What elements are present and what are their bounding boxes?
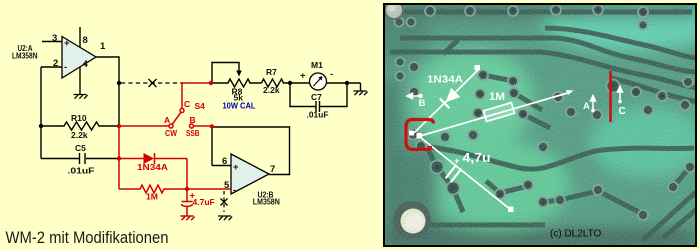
big drill hole <box>393 201 431 239</box>
svg-text:R10: R10 <box>71 113 87 123</box>
op-amp U1 (U2:A) body <box>62 37 96 79</box>
svg-text:(c) DL2LTO: (c) DL2LTO <box>550 229 602 240</box>
wire U2:B feedback loop <box>212 127 290 175</box>
annotation diode line <box>414 69 479 133</box>
svg-text:1N34A: 1N34A <box>137 162 168 172</box>
svg-text:2: 2 <box>53 58 58 69</box>
X removed mark <box>149 79 157 87</box>
wire dashed pin5 ground <box>223 191 225 212</box>
svg-text:C7: C7 <box>311 92 322 102</box>
op-amp U2 (U2:B) body <box>231 154 269 194</box>
node output junction <box>117 81 121 85</box>
annotation 1M arrowhead <box>566 90 574 95</box>
wire left feedback vertical <box>40 67 42 159</box>
wire U2:A output <box>96 57 119 126</box>
svg-text:4: 4 <box>83 59 89 70</box>
resistor R 1M <box>119 185 231 193</box>
svg-text:C5: C5 <box>75 143 86 153</box>
svg-text:C: C <box>184 99 190 109</box>
svg-text:7: 7 <box>270 164 275 175</box>
node R10 left junction <box>39 124 43 128</box>
svg-text:1M: 1M <box>146 192 158 202</box>
photo frame <box>384 4 696 246</box>
annotation red wire mark <box>609 71 612 122</box>
switch S4 contact C <box>180 109 184 113</box>
svg-text:M1: M1 <box>311 60 323 70</box>
meter M1 <box>310 73 327 90</box>
pcb pads <box>395 5 696 220</box>
photo grain <box>385 5 695 246</box>
wire node to switch A <box>119 125 169 127</box>
wire gnd drop <box>360 83 362 91</box>
wire B to U2:B loop <box>194 125 213 127</box>
svg-text:+: + <box>454 156 460 167</box>
wire pin4 power <box>79 68 81 95</box>
PCB photo <box>366 0 700 250</box>
svg-text:+: + <box>300 71 306 82</box>
svg-text:2.2k: 2.2k <box>263 85 280 95</box>
wire to meter <box>290 82 310 84</box>
svg-text:+: + <box>64 38 70 49</box>
ground near meter <box>354 91 368 95</box>
wire pin8 power <box>79 27 81 48</box>
X removed mark 2 <box>221 199 228 206</box>
svg-text:-: - <box>330 69 333 80</box>
svg-text:10W CAL: 10W CAL <box>223 102 256 111</box>
wire dashed removed link <box>121 82 182 84</box>
wire meter right <box>327 82 361 84</box>
svg-text:1M: 1M <box>489 91 505 103</box>
wire red vertical <box>118 126 120 189</box>
screw hole top-left <box>385 1 403 19</box>
wire R8 wiper box <box>212 63 239 84</box>
svg-text:C: C <box>619 106 626 117</box>
svg-text:-: - <box>233 185 236 196</box>
wire diode to cap <box>186 159 188 190</box>
wire pin2 input <box>41 66 62 68</box>
annotation end square 1 <box>475 65 481 71</box>
node red junctions <box>117 81 214 191</box>
svg-text:4,7u: 4,7u <box>463 151 491 165</box>
svg-text:WM-2 mit Modifikationen: WM-2 mit Modifikationen <box>6 229 169 247</box>
schematic labels black <box>12 33 333 207</box>
svg-text:LM358N: LM358N <box>253 198 280 207</box>
svg-text:S4: S4 <box>195 101 206 111</box>
annotation red bracket <box>406 120 434 150</box>
svg-text:.01uF: .01uF <box>307 110 329 120</box>
annotation end square 2 <box>508 207 514 213</box>
svg-text:1: 1 <box>100 41 106 52</box>
red net <box>117 81 231 220</box>
resistor R10 <box>41 122 119 130</box>
pcb traces <box>388 12 698 240</box>
svg-text:LM358N: LM358N <box>12 52 38 61</box>
svg-text:SSB: SSB <box>186 128 200 138</box>
svg-text:1N34A: 1N34A <box>427 74 463 86</box>
ground under X <box>218 216 232 220</box>
wire pin6 <box>212 165 231 167</box>
capacitor C5 <box>41 153 119 164</box>
resistor R7 <box>262 79 291 87</box>
svg-text:2.2k: 2.2k <box>71 130 88 140</box>
svg-text:CW: CW <box>165 128 178 138</box>
switch S4 lever <box>172 113 181 125</box>
ground red under cap <box>181 216 195 220</box>
svg-text:6: 6 <box>222 156 227 167</box>
svg-text:R7: R7 <box>266 67 277 77</box>
svg-text:A: A <box>164 115 170 125</box>
node meter-gnd junction <box>345 81 349 85</box>
svg-text:.01uF: .01uF <box>68 166 95 176</box>
svg-text:5: 5 <box>224 180 230 191</box>
annotation white lines <box>414 69 571 210</box>
capacitor C7 loop <box>290 83 347 112</box>
annotation diode symbol <box>440 87 461 108</box>
svg-text:B: B <box>419 98 426 109</box>
annotation cap line <box>420 137 511 210</box>
ground under U2:A <box>74 95 88 99</box>
svg-text:-: - <box>64 62 67 73</box>
annotation texts <box>419 74 626 168</box>
svg-text:8: 8 <box>83 35 88 46</box>
svg-text:B: B <box>190 115 196 125</box>
diode D1 1N34A <box>119 153 187 164</box>
switch S4 contact B <box>190 124 194 128</box>
annotation 1M line <box>420 92 571 136</box>
svg-text:3: 3 <box>52 33 57 44</box>
capacitor C 4.7uF <box>181 189 193 216</box>
svg-text:4.7uF: 4.7uF <box>193 197 215 207</box>
schematic labels red <box>137 99 215 207</box>
annotation B arrow <box>407 93 423 98</box>
node R7/M1 junction <box>288 81 292 85</box>
annotation A arrow <box>591 96 596 113</box>
annotation 1M box <box>484 103 515 122</box>
wire pin3 input <box>42 41 62 43</box>
annotation squares at hole <box>409 131 414 136</box>
wire C stem <box>182 83 211 109</box>
annotation C arrow <box>618 87 623 104</box>
annotation cap plates <box>446 165 462 182</box>
svg-text:A: A <box>583 101 590 112</box>
switch S4 contact A <box>169 124 173 128</box>
potentiometer R8 <box>212 79 262 87</box>
svg-text:+: + <box>233 162 239 173</box>
